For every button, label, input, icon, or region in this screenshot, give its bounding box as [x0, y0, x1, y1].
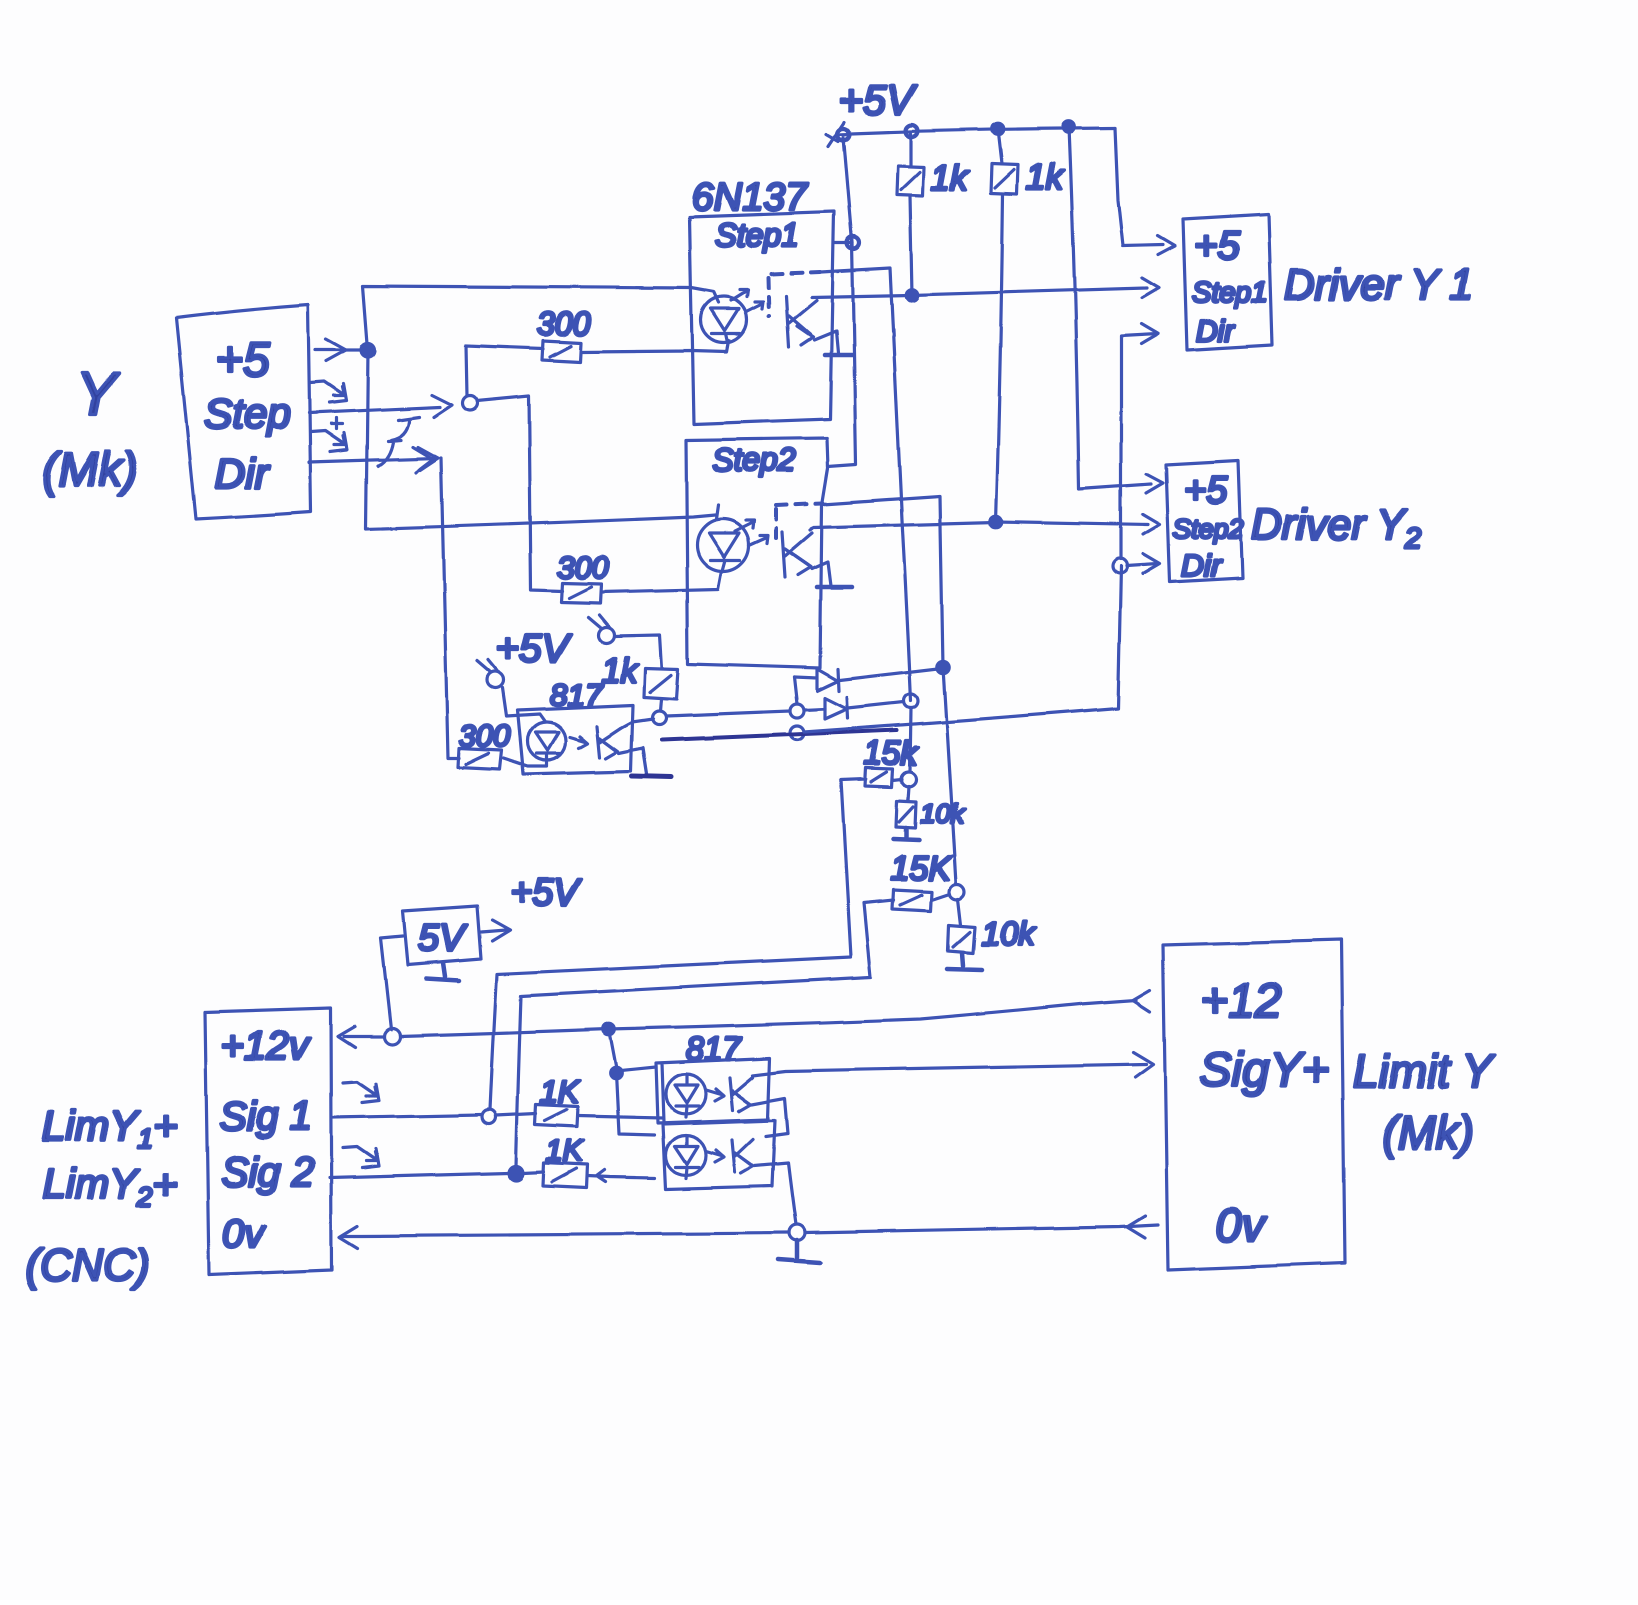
svg-text:+12: +12 — [1200, 975, 1281, 1028]
svg-text:Dir: Dir — [1196, 315, 1235, 348]
wire +5 drop from rail down to Step2 Vcc — [828, 137, 856, 466]
wire Sig Y+ line to Limit box — [753, 1064, 1146, 1075]
junction dot Sig2 tap — [509, 1166, 523, 1180]
svg-text:(Mk): (Mk) — [42, 444, 138, 497]
svg-text:SigY+: SigY+ — [1200, 1044, 1329, 1097]
resistor 15K (B) — [892, 890, 932, 911]
svg-text:1K: 1K — [546, 1135, 585, 1168]
svg-text:Driver Y 1: Driver Y 1 — [1284, 261, 1474, 309]
junction dot diode1 node — [937, 661, 949, 673]
wire 1K-B bottom lead — [996, 194, 1003, 522]
svg-text:10k: 10k — [920, 799, 965, 829]
wire Dir tap arrow into Driver Y2 Dir — [1127, 564, 1158, 566]
tick at rail left end — [826, 122, 844, 146]
glyph falling-edge (Sig1) — [343, 1082, 379, 1103]
resistor 10k (A) — [896, 801, 916, 828]
wire Sig2 to 1K-E — [523, 1172, 544, 1173]
junction dot +12/anode feed — [603, 1023, 615, 1035]
opto U4 box 817-1 — [656, 1058, 770, 1123]
gnd symbol below 0v — [778, 1241, 820, 1263]
arrowhead on Step wire — [432, 395, 452, 417]
wire D4 in from circle1 — [804, 709, 825, 710]
svg-text:(CNC): (CNC) — [25, 1241, 150, 1290]
arrowhead +12 into CNC box — [338, 1026, 355, 1047]
gnd symbol below 10k-A — [893, 828, 919, 840]
transistor Q3 — [597, 726, 621, 757]
arrowhead into Driver Y2 Dir — [1143, 554, 1160, 574]
light arrows U5 — [706, 1150, 724, 1162]
wire 5V out arrow — [481, 930, 506, 932]
opto U2 box Step2 — [686, 438, 828, 668]
gnd symbol 5V box — [426, 963, 459, 981]
opto U1 box Step1 — [690, 212, 834, 424]
gnd bar 817 — [632, 776, 671, 777]
junction circle P node (15K-A right) — [902, 772, 917, 787]
wire Mk Dir out — [309, 458, 437, 462]
LED D5 in 817 — [528, 722, 566, 760]
wire Sig2 from CNC — [330, 1173, 509, 1178]
wire Sig1 to 1K-D — [496, 1114, 536, 1116]
LED D1 in Step1 — [701, 297, 747, 343]
wire D3 out to node — [840, 668, 942, 680]
wire +5V B to 1K-C — [614, 635, 662, 668]
junction circle diode in 2 — [790, 726, 804, 740]
svg-text:+5V: +5V — [510, 872, 582, 914]
svg-text:+5V: +5V — [838, 76, 918, 123]
junction dot +5 node — [361, 343, 375, 357]
svg-text:+5: +5 — [215, 334, 270, 387]
wire 1K-E to 817-2 LED cathode — [587, 1170, 655, 1182]
glyph falling-edge (Sig2) — [343, 1147, 379, 1168]
svg-text:Sig 1: Sig 1 — [219, 1093, 312, 1139]
svg-text:1k: 1k — [601, 652, 639, 690]
arrowhead Q2 emitter — [795, 556, 811, 575]
arrowhead 0v into CNC — [340, 1226, 358, 1248]
arrowhead into Limit SigY+ — [1133, 1052, 1153, 1077]
wire 15k-A right lead — [893, 779, 902, 780]
resistor 1K (pull-up Step1) — [897, 166, 924, 196]
wire v1 down to P node — [910, 708, 911, 771]
interface box Limit Y — [1163, 940, 1345, 1270]
arrowhead on +5 wire — [326, 339, 346, 361]
arrowhead on Dir wire — [418, 447, 438, 470]
junction dot Step2 pull-up — [990, 516, 1002, 528]
wire rail to Driver Y1 +5 — [1115, 128, 1163, 246]
svg-text:5V: 5V — [418, 918, 468, 960]
opto U5 box 817-2 — [663, 1120, 775, 1189]
wire 5V box left to +12 line — [381, 936, 403, 1029]
wire 300-A to Step1 LED cathode — [581, 341, 729, 352]
arrowhead +12 at Limit side — [1133, 990, 1150, 1011]
gnd bar (pin Step2) — [817, 585, 852, 590]
wire 15K-B left lead and drop — [516, 900, 893, 1166]
junction dot rail-C — [992, 123, 1004, 135]
resistor 1K (Sig2) — [543, 1163, 587, 1188]
wire Mk +5 to junction — [315, 348, 362, 351]
wire Q4 emitter to Q5 collector — [752, 1098, 788, 1136]
svg-text:Step2: Step2 — [1173, 514, 1244, 544]
transistor Q5 — [732, 1139, 753, 1172]
arrowhead into Driver Y1 +5 — [1158, 236, 1175, 255]
wire anode into 817-1 — [616, 1067, 656, 1071]
junction circle diode in 1 — [790, 704, 804, 718]
junction circle v1/diode — [904, 694, 918, 708]
wire Q3 emitter to gnd — [619, 748, 647, 774]
svg-text:300: 300 — [557, 550, 609, 585]
dashed photodetector box Step2 — [776, 503, 823, 505]
svg-text:Step: Step — [204, 390, 290, 437]
wire D4 out to v1 — [848, 702, 904, 708]
wire Q5 emitter to 0v — [754, 1163, 796, 1225]
svg-text:1k: 1k — [931, 159, 969, 198]
wire Step1 line to Driver Y1 — [912, 288, 1147, 295]
regulator box 5V — [403, 906, 481, 965]
arrowhead Q1 emitter — [797, 326, 813, 345]
wire +5V A to LED anode — [503, 688, 545, 721]
glyph falling-edge (Dir) with plus — [311, 418, 347, 452]
wire Dir vertical up to Driver Y1 Dir — [1121, 334, 1157, 559]
wire rail to Driver Y2 +5 — [1069, 127, 1151, 489]
junction circle 5V/+12 — [384, 1028, 400, 1044]
svg-text:Driver Y2: Driver Y2 — [1251, 501, 1423, 555]
junction circle Step node — [463, 396, 478, 411]
wire Q2 emitter to gnd pin — [812, 562, 831, 586]
opto U3 box 817 — [518, 705, 633, 774]
arrowhead Q3 emitter — [604, 741, 618, 758]
wire 0v line CNC to Limit — [344, 1225, 1158, 1236]
interface box CNC — [205, 1008, 332, 1275]
svg-text:Sig 2: Sig 2 — [221, 1149, 315, 1195]
glyph falling-edge (Step) — [310, 382, 346, 403]
gnd bar (pin5 Step1) — [825, 353, 852, 358]
wire 15k-A left lead and drop — [490, 779, 866, 1110]
transistor Q1 — [786, 296, 817, 347]
svg-text:10k: 10k — [981, 915, 1036, 952]
arrowhead 0v at Limit side — [1127, 1216, 1145, 1238]
LED D6 in 817-1 — [666, 1074, 706, 1114]
wire anode feed down to 817-2 — [616, 1073, 655, 1135]
source box Y(Mk) — [176, 305, 311, 519]
wire 300-B to Step2 LED cathode — [601, 573, 721, 592]
svg-text:Y: Y — [76, 360, 120, 427]
wire P node tail to 10k-A — [908, 786, 909, 801]
wire Dir line to Driver verticals — [804, 566, 1121, 732]
wire Sig1 from CNC — [332, 1115, 482, 1118]
driver box Y1 — [1183, 214, 1272, 350]
svg-text:LimY1+: LimY1+ — [42, 1102, 178, 1154]
arrowhead Q5 emitter — [739, 1156, 753, 1173]
diode D3 — [794, 669, 839, 691]
svg-text:+5: +5 — [1194, 224, 1240, 268]
resistor 1K (pull-up Step2) — [991, 164, 1018, 194]
transistor Q2 — [782, 532, 812, 577]
wire 1K-C to collector node — [660, 699, 661, 711]
junction circle 15K-B node — [950, 885, 965, 900]
svg-text:(Mk): (Mk) — [1382, 1106, 1474, 1158]
resistor 300 (Step2) — [561, 583, 601, 603]
svg-text:LimY2+: LimY2+ — [42, 1160, 178, 1212]
junction circle 817 collector — [652, 711, 666, 725]
arrowhead into Driver Y2 +5 — [1146, 474, 1163, 493]
light arrows D2 — [735, 520, 768, 545]
svg-text:1K: 1K — [540, 1074, 581, 1110]
LED D7 in 817-2 — [666, 1135, 706, 1175]
junction circle Dir Y2 tap — [1113, 559, 1128, 574]
driver box Y2 — [1166, 461, 1242, 582]
svg-text:0v: 0v — [222, 1212, 266, 1256]
wire Step2 dashed-top output down to diode node — [823, 496, 943, 667]
wire Dir line (dark doubled stroke) — [662, 730, 897, 740]
resistor 1K (817 pull-up) — [644, 668, 678, 699]
wire Step1 dashed-top output — [821, 268, 911, 701]
svg-text:Step1: Step1 — [715, 217, 799, 253]
svg-text:+12v: +12v — [221, 1024, 311, 1068]
light arrows U3 — [570, 736, 588, 748]
wire +5 node down to Step2 anode line — [366, 350, 715, 529]
junction circle 0v gnd — [789, 1225, 805, 1241]
arrowhead after F — [413, 447, 433, 472]
resistor 300 (Dir) — [458, 748, 502, 769]
wire Q1 collector to Step1 line — [812, 295, 910, 297]
wire Step2 line to Driver Y2 — [996, 522, 1148, 525]
svg-text:0v: 0v — [1216, 1199, 1268, 1251]
junction dot rail-B — [906, 125, 918, 137]
+5V terminal circle A — [488, 672, 504, 688]
svg-text:+5: +5 — [1184, 470, 1228, 512]
dashed photodetector box Step1 — [771, 272, 820, 274]
wire 1K-A top lead — [909, 134, 912, 166]
svg-text:15k: 15k — [864, 734, 919, 771]
wire D3 input drop — [794, 677, 797, 704]
resistor 300 (Step1) — [542, 341, 581, 362]
wire Q3 collector out — [621, 719, 653, 728]
wire +5 node up and to Step1 LED anode — [363, 286, 719, 350]
wire 1K-D to 817-1 LED cathode — [578, 1116, 663, 1118]
arrowhead into Driver Y1 Step1 — [1142, 278, 1159, 298]
junction dot rail-A — [837, 128, 849, 140]
junction dot Step1 pull-up — [906, 289, 918, 301]
svg-text:300: 300 — [459, 718, 511, 753]
arrowhead into Driver Y2 Step2 — [1143, 515, 1160, 535]
arrowhead 5V out — [492, 920, 510, 941]
junction circle Sig1 tap — [482, 1110, 496, 1124]
svg-text:Dir: Dir — [215, 450, 271, 497]
gnd symbol below 10k-B — [947, 953, 982, 970]
wire +12 line (Limit Y to CNC) — [344, 1000, 1136, 1036]
svg-text:Dir: Dir — [1181, 548, 1222, 583]
resistor 15k (A) — [865, 768, 893, 787]
LED D2 in Step2 — [697, 519, 749, 571]
arrowhead into Driver Y1 Dir — [1141, 324, 1158, 344]
svg-text:1k: 1k — [1026, 158, 1064, 197]
+5V terminal circle B — [598, 627, 614, 643]
wire 1K-B top lead — [998, 129, 1002, 164]
wire Q1 emitter to gnd pin — [814, 331, 838, 353]
junction dot anode 817-1 — [610, 1067, 622, 1079]
resistor 1K (Sig1) — [535, 1105, 578, 1127]
wire anode feed down to 817-1 — [609, 1029, 616, 1066]
svg-text:300: 300 — [537, 306, 591, 342]
wire Step node to Step2 branch corner — [477, 396, 562, 591]
junction dot rail-D — [1063, 121, 1075, 133]
wire +5V rail — [837, 128, 1115, 134]
light arrows U4 — [706, 1089, 724, 1101]
junction dot Step1 Vcc — [847, 237, 859, 249]
wire Step1 Vcc to +5 drop — [834, 241, 852, 244]
resistor 10k (B) — [948, 925, 975, 953]
svg-text:15K: 15K — [890, 850, 952, 888]
wire diode1 node down to 15K-B node — [943, 667, 956, 884]
light arrows D1 — [731, 290, 763, 312]
svg-text:+5V: +5V — [496, 627, 572, 671]
wire Dir collector to diode circles — [666, 711, 790, 716]
transistor Q4 — [730, 1077, 753, 1110]
glyph F edge marker — [378, 417, 419, 466]
wire Step node up to 300-A — [466, 346, 543, 396]
wire D5 cathode to 300-C — [504, 755, 547, 766]
svg-text:Limit Y: Limit Y — [1353, 1045, 1496, 1097]
wire Mk Step to junction circle — [309, 407, 440, 413]
wire 15K-B right lead — [932, 894, 950, 900]
diode D4 — [825, 697, 848, 719]
wire Q2 collector to Step2 line — [810, 522, 996, 530]
arrowhead Q4 emitter — [737, 1094, 751, 1111]
svg-text:Step2: Step2 — [712, 442, 796, 478]
wire to 10k-B — [958, 899, 961, 925]
wire 1K-A bottom lead — [910, 196, 912, 295]
svg-text:Step1: Step1 — [1192, 277, 1268, 309]
wire Dir down to 300-C — [441, 458, 459, 758]
